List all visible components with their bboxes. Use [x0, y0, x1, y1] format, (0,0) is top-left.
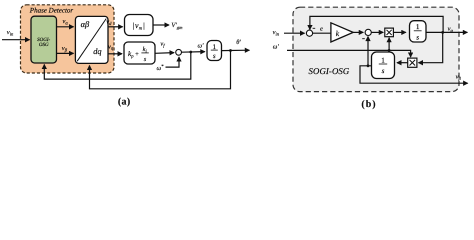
- wire omega': [182, 42, 205, 53]
- wire v_alpha output: [426, 26, 467, 34]
- wire theta' output: [222, 39, 250, 52]
- svg-text:(a): (a): [118, 96, 131, 107]
- wire v_beta: [57, 45, 74, 53]
- wire v_beta output: [360, 66, 468, 83]
- wire v_d: [106, 19, 122, 27]
- wire S3 to multiplier M1: [371, 31, 383, 33]
- feedback wire theta' to dq: [90, 51, 231, 89]
- block integrator 1/s (a): [207, 41, 222, 61]
- svg-text:1: 1: [212, 43, 216, 51]
- summing junction S3: [365, 29, 371, 35]
- svg-text:OSG: OSG: [39, 42, 49, 48]
- wire v_q: [108, 43, 122, 53]
- block PI controller kp+ki/s: [124, 42, 155, 64]
- svg-text:dq: dq: [93, 47, 101, 56]
- svg-text:s: s: [213, 52, 216, 60]
- summing junction S1: [176, 49, 182, 55]
- svg-text:αβ: αβ: [81, 20, 90, 29]
- wire v_in to SOGI-OSG: [2, 39, 30, 41]
- input v_in (b): [273, 29, 305, 36]
- block alpha-beta / dq transform: [75, 16, 108, 63]
- feedback wire omega' to SOGI-OSG: [44, 52, 191, 79]
- svg-text:(b): (b): [361, 99, 376, 110]
- svg-text:1: 1: [381, 57, 385, 65]
- svg-text:SOGI-OSG: SOGI-OSG: [309, 66, 350, 76]
- input v_in (a): [7, 29, 14, 36]
- svg-text:1: 1: [416, 23, 420, 31]
- minus sign at S2: [313, 27, 316, 29]
- svg-text:Phase Detector: Phase Detector: [29, 7, 74, 15]
- svg-text:θ′: θ′: [236, 39, 241, 46]
- block magnitude |vm|: [125, 15, 154, 36]
- svg-text:ω′: ω′: [198, 42, 205, 49]
- wire e to gain k: [313, 32, 331, 34]
- feedback wire v_alpha to M2: [420, 32, 443, 62]
- block U1 SOGI-OSG (green): [31, 16, 57, 63]
- wire v_alpha: [57, 18, 74, 27]
- wire qv' to S3 (negative feedback): [367, 37, 370, 68]
- svg-text:s: s: [416, 33, 419, 41]
- svg-text:ω′: ω′: [273, 43, 280, 50]
- svg-text:s: s: [382, 67, 385, 75]
- multiplier M2: [408, 58, 417, 67]
- gain k triangle: [331, 23, 353, 42]
- wire V'gm output: [153, 24, 169, 26]
- enclosure: Phase Detector dashed box: [21, 5, 115, 73]
- input omega' (b): [273, 38, 411, 57]
- input omega*: [157, 57, 180, 72]
- enclosure: SOGI-OSG dashed box (b): [293, 7, 459, 91]
- wire k to S3: [353, 31, 363, 33]
- block integrator 1/s (b bottom): [372, 52, 395, 79]
- multiplier M1: [385, 28, 394, 37]
- block integrator 1/s (b top): [410, 21, 427, 42]
- summing junction S2: [306, 30, 312, 36]
- svg-text:SOGI-: SOGI-: [37, 37, 50, 43]
- wire M2 to integrator 2: [397, 62, 408, 64]
- top feedback loop (v_alpha to S2): [310, 16, 443, 32]
- minus sign at S3: [362, 38, 365, 40]
- wire v_f: [155, 40, 174, 53]
- svg-text:e: e: [320, 26, 323, 33]
- wire M1 to integrator 1: [393, 31, 405, 33]
- svg-text:kp +: kp +: [128, 50, 139, 59]
